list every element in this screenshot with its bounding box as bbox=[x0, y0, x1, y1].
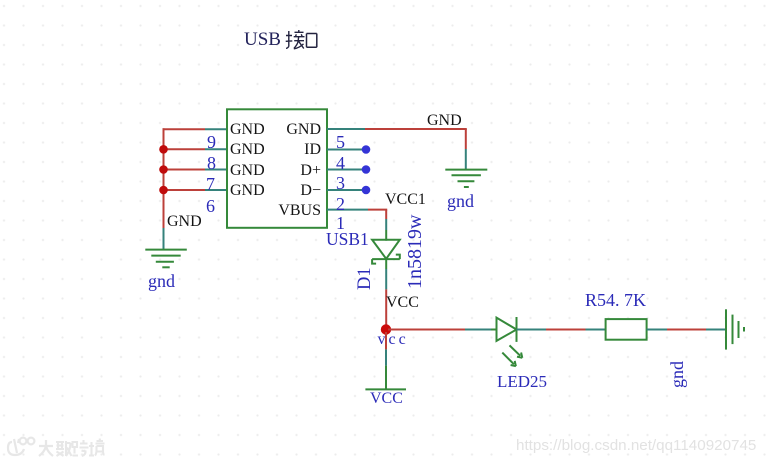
ground left: bar2 bbox=[151, 255, 180, 257]
label: gnd left bbox=[148, 272, 175, 290]
label: pin number 4 bbox=[336, 154, 345, 172]
power VCC bar bbox=[365, 388, 406, 390]
ground top-right: bar4 bbox=[464, 186, 469, 188]
ground left: bar4 bbox=[162, 266, 169, 268]
watermark: logo bottom left bbox=[0, 430, 120, 464]
pin 7 stub bbox=[205, 169, 227, 171]
wire: VBUS vertical down bbox=[385, 210, 387, 219]
ground top-right: stem bbox=[465, 149, 467, 170]
title USB接口 glyph 接 bbox=[286, 30, 305, 49]
wire: GND top horizontal bbox=[365, 128, 467, 130]
no-connect dot pin 3 bbox=[362, 165, 371, 174]
power VCC stem bbox=[385, 366, 387, 390]
LED LED25 emission arrow 2 bbox=[502, 353, 516, 367]
wire: LED to resistor red bbox=[546, 329, 586, 331]
wire: junction to LED red bbox=[388, 329, 465, 331]
label: net vcc small bbox=[378, 332, 409, 348]
label: designator USB1 bbox=[326, 231, 369, 249]
earth ground right: bar3 bbox=[738, 321, 740, 338]
ground top-right: bar1 bbox=[445, 169, 487, 171]
wire: GND top vertical bbox=[465, 129, 467, 149]
resistor R5 right pin bbox=[647, 329, 667, 331]
watermark: csdn url bbox=[516, 438, 756, 453]
label: pin name GND row3 left bbox=[230, 163, 265, 179]
wire: below diode red to junction bbox=[385, 289, 387, 331]
no-connect dot pin 4 bbox=[362, 145, 371, 154]
diode D1 cathode bar with schottky hooks bbox=[372, 255, 400, 264]
label: pin name D- bbox=[300, 183, 321, 199]
junction dot row4 bbox=[159, 186, 168, 195]
label: pin number 5 bbox=[336, 133, 345, 151]
label: pin number 1 bbox=[336, 214, 345, 232]
wire: LED to resistor teal bbox=[517, 329, 547, 331]
diode D1 anode pin bbox=[385, 230, 387, 241]
earth ground right: bar2 bbox=[732, 315, 734, 345]
ground left: stem bbox=[163, 228, 165, 250]
wire: resistor to ground red bbox=[667, 329, 706, 331]
label: pin name GND row1 right bbox=[286, 122, 321, 138]
wire: row4 left horizontal bbox=[164, 189, 206, 191]
junction dot row3 bbox=[159, 165, 168, 174]
label: net VCC mid bbox=[386, 295, 419, 311]
pin 9 stub bbox=[205, 128, 227, 130]
label: pin name VBUS bbox=[278, 203, 321, 219]
wire: to earth ground teal bbox=[706, 329, 726, 331]
label: pin number 9 bbox=[207, 133, 216, 151]
label: pin name GND row1 left bbox=[230, 122, 265, 138]
earth ground right: bar4 bbox=[743, 327, 745, 332]
label: net GND left bbox=[167, 214, 202, 230]
diode D1 triangle bbox=[372, 240, 400, 259]
wire: row1 left horizontal bbox=[163, 128, 206, 130]
pin 1 stub bbox=[327, 209, 368, 211]
LED LED25 triangle bbox=[497, 318, 517, 341]
label: value 1n5819w (rotated) bbox=[405, 215, 425, 289]
label: gnd top right bbox=[447, 192, 474, 210]
junction dot row2 bbox=[159, 145, 168, 154]
ground left: bar1 bbox=[145, 249, 187, 251]
title USB接口 glyph 口 bbox=[307, 34, 317, 48]
earth ground right: bar1 bbox=[725, 309, 727, 349]
junction dot vcc bbox=[381, 324, 391, 334]
label: pin name ID bbox=[304, 142, 321, 158]
ground left: bar3 bbox=[156, 261, 174, 263]
pin 4 stub bbox=[327, 149, 363, 151]
pin 6 stub bbox=[205, 189, 227, 191]
LED LED25 anode pin bbox=[491, 329, 498, 331]
wire: to diode anode bbox=[385, 219, 387, 230]
wire: row2 left horizontal bbox=[164, 148, 206, 150]
label: designator D1 (rotated) bbox=[356, 267, 375, 290]
watermark logo icon bbox=[8, 438, 34, 455]
label: pin name GND row4 left bbox=[230, 183, 265, 199]
resistor R5 body bbox=[606, 319, 647, 340]
pin 8 stub bbox=[205, 148, 227, 150]
component USB1 box bbox=[227, 109, 327, 228]
wire: VBUS horizontal bbox=[368, 209, 387, 211]
resistor R5 left pin bbox=[586, 329, 606, 331]
watermark glyph 数 bbox=[56, 441, 72, 456]
label: net GND top right bbox=[427, 113, 462, 129]
ground top-right: bar3 bbox=[458, 180, 475, 182]
wire: junction down teal bbox=[385, 349, 387, 365]
wire: below diode teal bbox=[385, 269, 387, 289]
wire: junction down red bbox=[385, 332, 387, 349]
label: pin number 6 bbox=[206, 197, 215, 215]
pin 5 stub bbox=[327, 128, 365, 130]
label: gnd right (rotated) bbox=[668, 361, 686, 388]
no-connect dot pin 2 bbox=[362, 186, 371, 195]
diode D1 cathode pin bbox=[385, 259, 387, 269]
watermark glyph 境 bbox=[89, 439, 105, 456]
label: pin number 2 bbox=[336, 195, 345, 213]
wire: left vertical bus bbox=[163, 128, 165, 232]
watermark glyph 大 bbox=[39, 440, 53, 456]
watermark glyph 跨 bbox=[73, 440, 89, 456]
label: pin number 7 bbox=[206, 175, 215, 193]
label: pin name GND row2 left bbox=[230, 142, 265, 158]
wire: row3 left horizontal bbox=[164, 169, 206, 171]
label: designator LED25 bbox=[497, 373, 547, 390]
label: value R54.7K bbox=[585, 291, 646, 309]
LED LED25 emission arrow 1 bbox=[510, 345, 523, 357]
pin 3 stub bbox=[327, 169, 363, 171]
pin 2 stub bbox=[327, 189, 363, 191]
label: title USB bbox=[244, 30, 281, 49]
label: pin number 3 bbox=[336, 174, 345, 192]
ground top-right: bar2 bbox=[452, 174, 481, 176]
label: power VCC bottom bbox=[370, 391, 403, 407]
label: pin name D+ bbox=[300, 163, 321, 179]
wire: to LED teal bbox=[465, 329, 491, 331]
label: net VCC1 bbox=[385, 192, 426, 208]
label: pin number 8 bbox=[207, 154, 216, 172]
LED LED25 cathode bar bbox=[516, 317, 518, 342]
